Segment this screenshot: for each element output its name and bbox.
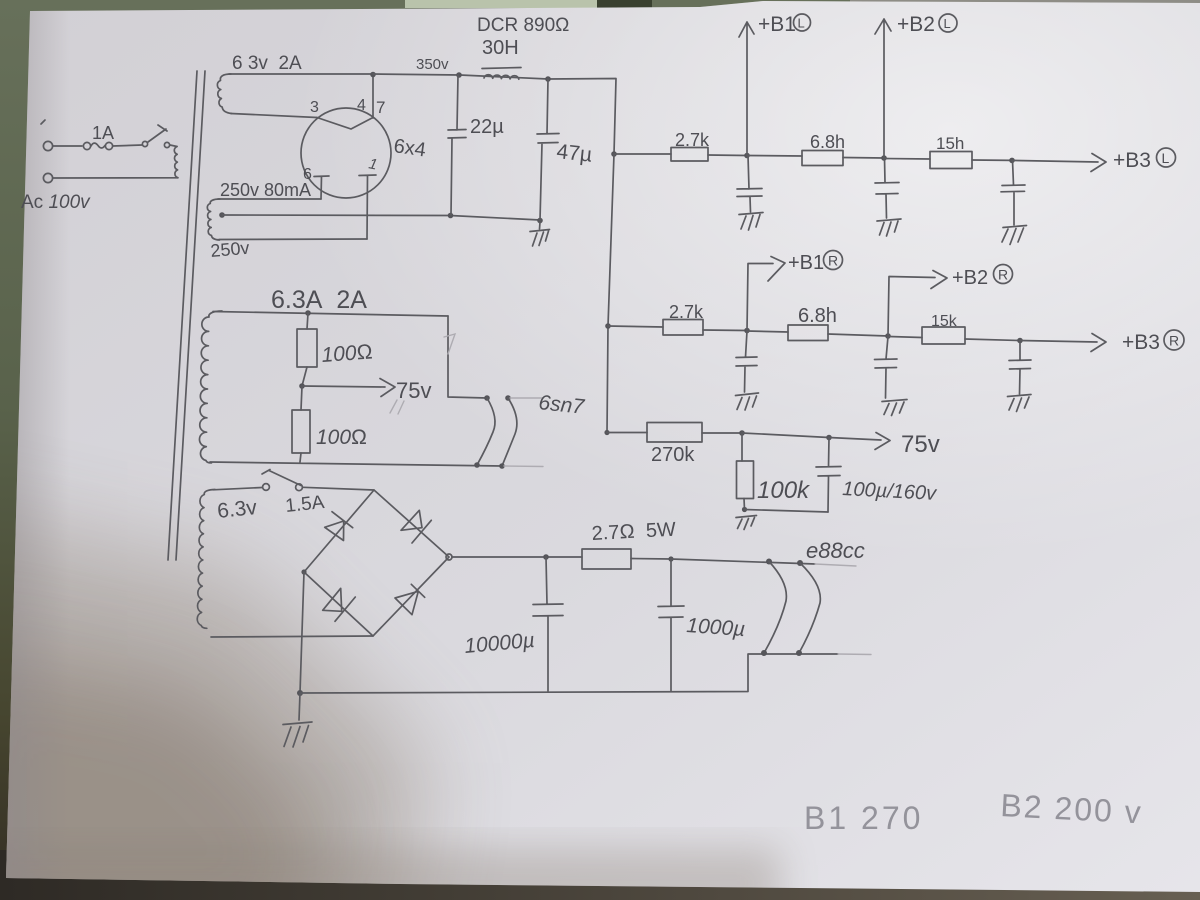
- svg-text:+B1: +B1: [758, 13, 796, 36]
- capacitor 1000u: [658, 559, 684, 692]
- wire winding bottom to tube pin 3: [231, 114, 317, 118]
- node 10000u top: [543, 554, 549, 560]
- svg-text:+B2: +B2: [952, 267, 988, 289]
- node B3L: [1009, 158, 1015, 164]
- svg-text:DCR 890Ω: DCR 890Ω: [477, 15, 569, 36]
- svg-text:B2 200 v: B2 200 v: [1000, 787, 1144, 830]
- ground G4: [1002, 226, 1027, 245]
- wire 75V-row seg1: [607, 432, 647, 434]
- svg-text:6.8h: 6.8h: [810, 132, 845, 152]
- node 6sn7 heater bottom a: [474, 462, 480, 468]
- diode D4: [395, 584, 425, 614]
- node 75V-row left: [604, 430, 609, 435]
- resistor 2.7k (R): [663, 320, 703, 336]
- svg-text:75v: 75v: [396, 378, 431, 403]
- svg-text:75v: 75v: [901, 431, 940, 458]
- capacitor C-B2L: [875, 158, 899, 218]
- winding 6.3A 2A: [199, 311, 222, 463]
- ground G5: [736, 393, 759, 410]
- capacitor C-B2R: [875, 337, 898, 399]
- wire winding bottom to bridge: [211, 636, 373, 637]
- wire L-row seg2: [747, 155, 802, 158]
- svg-text:1A: 1A: [92, 123, 114, 143]
- svg-text:2.7k: 2.7k: [675, 130, 710, 150]
- svg-text:270k: 270k: [651, 444, 695, 466]
- node B1R: [744, 328, 750, 334]
- right drop of heater circuit: [448, 316, 487, 398]
- bridge rectifier diamond: [304, 490, 449, 636]
- svg-text:6.3A 2A: 6.3A 2A: [271, 286, 367, 314]
- svg-text:3: 3: [310, 99, 319, 116]
- centre tap ground rail: [222, 215, 540, 220]
- wire winding to fuse: [213, 488, 262, 490]
- choke 30H bar: [482, 68, 521, 69]
- ground G8: [736, 516, 757, 530]
- transformer primary winding: [174, 147, 177, 178]
- heater filament V (pins 3-4): [317, 118, 372, 130]
- node 6sn7 heater top a: [484, 395, 490, 401]
- +B1(L) feed arrow: [739, 22, 754, 155]
- wire 100k to 100u bottom: [745, 510, 829, 513]
- svg-text:6 3v 2A: 6 3v 2A: [232, 53, 302, 74]
- winding 6.3V (e88cc heater): [197, 490, 215, 629]
- faint lead bottom: [504, 465, 543, 468]
- capacitor 10000u: [533, 557, 563, 691]
- svg-text:6.8h: 6.8h: [798, 305, 837, 327]
- faint ghost marks under arrow: [390, 400, 404, 414]
- node e88cc heater bottom b: [796, 650, 802, 656]
- capacitor C-B3L: [1001, 160, 1025, 225]
- svg-text:100Ω: 100Ω: [316, 426, 367, 449]
- transformer core: [168, 71, 197, 560]
- faint lead top: [510, 397, 543, 399]
- svg-text:e88cc: e88cc: [806, 538, 865, 563]
- svg-text:6.3v: 6.3v: [216, 496, 258, 523]
- node e88cc heater bottom a: [761, 650, 767, 656]
- node 47u bottom: [537, 218, 543, 224]
- resistor 15k (L): [930, 152, 972, 169]
- 75V output arrow: [829, 433, 890, 450]
- wire heater winding bottom: [210, 453, 502, 466]
- choke 30H winding: [484, 75, 519, 79]
- wire L-row seg1: [614, 153, 671, 155]
- node B2L: [881, 155, 887, 161]
- wire 250V top to plate 6: [218, 198, 321, 200]
- bridge left node: [301, 569, 306, 574]
- wire to node B3R: [965, 339, 1020, 341]
- node hum pot top: [305, 310, 311, 316]
- resistor 2.7ohm 5W: [582, 549, 631, 569]
- svg-text:22µ: 22µ: [470, 116, 504, 138]
- diode D3: [323, 588, 356, 621]
- resistor 100ohm upper: [307, 313, 308, 329]
- 6sn7 heater curve a: [477, 398, 495, 465]
- +B2(L) feed arrow: [875, 19, 891, 158]
- centre tap node: [219, 212, 225, 218]
- node 47u top: [545, 76, 551, 82]
- capacitor C-B1R: [736, 331, 757, 392]
- node 100k top: [739, 430, 745, 436]
- capacitor C-B3R: [1009, 341, 1031, 394]
- wire L-row seg3: [884, 158, 930, 161]
- left bus vertical: [607, 154, 614, 433]
- +B1(R) feed arrow: [747, 257, 785, 331]
- node B3R: [1017, 338, 1023, 344]
- resistor 6.8h (L): [802, 151, 843, 166]
- wire to node 100u: [742, 433, 829, 438]
- svg-text:L: L: [1162, 150, 1170, 166]
- rectifier tube 6X4 envelope: [301, 108, 391, 198]
- resistor 100k: [741, 434, 743, 462]
- svg-text:6x4: 6x4: [392, 135, 427, 161]
- svg-text:+B3: +B3: [1113, 149, 1151, 172]
- svg-text:47µ: 47µ: [555, 140, 593, 167]
- e88cc heater curve a: [764, 562, 786, 654]
- faint lead bottom right: [838, 653, 871, 656]
- fuse/switch 1.5A: [262, 470, 270, 475]
- svg-text:R: R: [998, 267, 1008, 283]
- wire to node B2R: [828, 334, 888, 336]
- wire 2.7ohm to 1000u: [631, 558, 671, 561]
- B+ rail to filter: [373, 74, 616, 154]
- svg-text:30H: 30H: [482, 37, 519, 59]
- resistor 15k (R): [922, 327, 965, 344]
- wire bridge out to 2.7ohm: [452, 556, 582, 558]
- node 1000u top: [668, 556, 673, 561]
- svg-text:R: R: [1169, 333, 1179, 349]
- svg-text:15h: 15h: [936, 134, 964, 153]
- svg-text:1000µ: 1000µ: [686, 614, 746, 641]
- svg-text:L: L: [798, 16, 805, 31]
- +B2(R) feed arrow: [888, 271, 947, 337]
- svg-text:6sn7: 6sn7: [537, 391, 586, 419]
- wire to node B1R: [703, 329, 747, 332]
- wire AC top to fuse: [53, 145, 82, 147]
- resistor 100ohm lower: [301, 386, 302, 410]
- faint ghost 7: [444, 334, 455, 354]
- ground G2: [739, 213, 763, 231]
- capacitor 22u: [448, 75, 466, 215]
- svg-text:+B1: +B1: [788, 252, 824, 274]
- plate bar pin 1: [359, 175, 376, 239]
- resistor 270k: [647, 423, 702, 443]
- pin 4/7 lead to rail: [372, 74, 374, 118]
- svg-text:B1 270: B1 270: [804, 800, 923, 836]
- wire to node B3L: [972, 159, 1012, 161]
- svg-text:250v 80mA: 250v 80mA: [220, 180, 311, 200]
- stray pencil tick: [41, 120, 45, 124]
- node dot rail/pin7: [370, 72, 376, 78]
- AC input terminal bottom: [43, 173, 52, 182]
- fuse F1 1A: [83, 142, 90, 149]
- ground G1: [539, 222, 542, 229]
- heater DC minus rail: [300, 654, 838, 693]
- 75V bias arrow: [302, 379, 395, 397]
- node e88cc heater top a: [766, 559, 772, 565]
- node e88cc heater top b: [797, 560, 803, 566]
- +B3(R) output arrow: [1020, 334, 1106, 352]
- ground G9: [299, 693, 300, 720]
- wire fuse to switch: [113, 145, 142, 146]
- switch S1: [142, 141, 147, 146]
- wire R-row seg3: [888, 337, 922, 338]
- wire fuse to bridge top: [303, 487, 374, 490]
- resistor 6.8h (R): [788, 325, 828, 341]
- svg-text:100Ω: 100Ω: [321, 340, 374, 367]
- node 22u top: [456, 72, 462, 78]
- svg-text:1.5A: 1.5A: [284, 492, 325, 517]
- node 100k bottom: [743, 499, 746, 510]
- wire 250V bottom to plate 1: [219, 238, 367, 241]
- ground G6: [882, 400, 907, 416]
- svg-text:+B2: +B2: [897, 13, 935, 36]
- node between 100ohm: [302, 367, 307, 386]
- 6sn7 heater curve b: [502, 398, 517, 466]
- svg-text:2.7Ω 5W: 2.7Ω 5W: [591, 519, 676, 545]
- capacitor 47u: [537, 79, 559, 220]
- node 22u bottom: [448, 213, 454, 219]
- node 100u top: [826, 435, 832, 441]
- wire R-row seg1: [608, 326, 663, 327]
- svg-text:4: 4: [357, 97, 366, 114]
- wire winding top to B+ rail: [229, 73, 373, 75]
- ground G7: [1008, 395, 1032, 412]
- wire heater winding top: [213, 312, 448, 317]
- capacitor C-B1L: [737, 156, 762, 213]
- plate bar pin 6: [314, 176, 329, 199]
- svg-text:250v: 250v: [210, 238, 251, 261]
- capacitor 100u/160V: [816, 438, 841, 512]
- svg-text:L: L: [944, 16, 951, 31]
- bridge minus drop: [300, 572, 304, 693]
- e88cc heater curve b: [799, 563, 820, 653]
- node L-row left: [611, 151, 617, 157]
- svg-text:Ac 100v: Ac 100v: [21, 192, 91, 213]
- svg-text:R: R: [828, 253, 838, 269]
- wire R-row seg2: [747, 331, 788, 332]
- wire switch to primary: [170, 145, 177, 147]
- wire to node B1L: [708, 154, 747, 157]
- resistor 2.7k (L): [671, 148, 708, 162]
- faint lead right: [815, 564, 856, 566]
- AC input terminal top: [43, 141, 52, 150]
- svg-text:350v: 350v: [416, 56, 449, 73]
- wire to node 100k: [702, 432, 742, 434]
- node 6sn7 heater top b: [505, 395, 511, 401]
- svg-text:+B3: +B3: [1122, 331, 1160, 354]
- svg-text:100k: 100k: [757, 477, 811, 504]
- node R-row left: [605, 323, 611, 329]
- +B3(L) output arrow: [1012, 154, 1106, 172]
- diode D2: [401, 510, 431, 543]
- svg-text:15k: 15k: [931, 313, 958, 330]
- svg-text:2.7k: 2.7k: [669, 302, 704, 322]
- ground G3: [877, 219, 901, 236]
- diode D1: [325, 512, 353, 541]
- winding 6.3V 2A (rectifier heater): [217, 74, 231, 114]
- node B1L: [744, 153, 750, 159]
- svg-text:7: 7: [376, 98, 385, 117]
- wire AC bottom to primary: [53, 177, 178, 179]
- node 6sn7 heater bottom b: [499, 463, 505, 469]
- winding 250V 80mA: [207, 199, 220, 240]
- node B2R: [885, 333, 891, 339]
- bridge + output terminal: [446, 554, 452, 560]
- wire to e88cc heater: [671, 559, 815, 564]
- wire to node B2L: [843, 157, 884, 160]
- node minus rail: [297, 690, 303, 696]
